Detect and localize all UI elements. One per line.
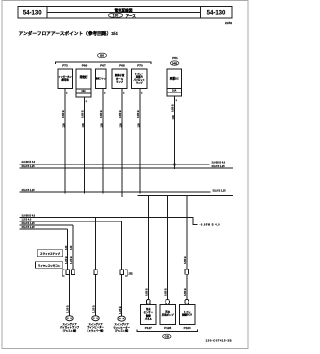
svg-text:P68: P68 xyxy=(119,64,125,68)
svg-text:130: 130 xyxy=(62,123,66,128)
svg-text:3/1.6 B 1.25: 3/1.6 B 1.25 xyxy=(22,165,36,168)
component P129 box xyxy=(179,304,194,324)
wire W6 from P51 xyxy=(174,96,176,169)
svg-text:トイレ・: トイレ・ xyxy=(135,72,144,75)
svg-text:-0.85W B 4.0: -0.85W B 4.0 xyxy=(200,223,221,226)
wire C drop from L2 xyxy=(121,221,123,270)
svg-text:電気配線図: 電気配線図 xyxy=(115,8,133,13)
svg-text:3/1.6 B 1.25: 3/1.6 B 1.25 xyxy=(22,189,36,192)
svg-text:34B: 34B xyxy=(172,61,178,65)
svg-text:1.25 B: 1.25 B xyxy=(66,305,70,313)
svg-text:J/B: J/B xyxy=(128,271,132,275)
svg-text:0.85 B: 0.85 B xyxy=(145,288,149,296)
component P70 トイレパイロットランプ box xyxy=(132,69,148,89)
J/B bracket left xyxy=(62,270,64,276)
svg-text:スライドステップ: スライドステップ xyxy=(40,252,61,256)
svg-text:130: 130 xyxy=(64,245,68,250)
svg-text:(アシスト側): (アシスト側) xyxy=(115,329,129,333)
ground bus 3 xyxy=(20,191,211,193)
ground point B xyxy=(92,316,99,321)
component P68 車椅子室ホールランプ box xyxy=(112,69,127,89)
svg-text:0.85 B: 0.85 B xyxy=(136,110,140,118)
svg-text:1.25 B: 1.25 B xyxy=(118,306,122,314)
branch line L3 xyxy=(20,224,74,226)
svg-text:3/1.6 B 1.25: 3/1.6 B 1.25 xyxy=(22,222,36,225)
branch line L4 xyxy=(20,228,68,230)
component P66 発電灯 box xyxy=(76,69,91,97)
connector oval above P129 xyxy=(185,300,189,305)
svg-text:0.85 B: 0.85 B xyxy=(171,104,175,112)
connector A1 xyxy=(66,270,69,275)
wire W1 from P73 xyxy=(64,89,66,194)
svg-text:発電灯: 発電灯 xyxy=(79,75,88,79)
svg-text:1.25 B: 1.25 B xyxy=(64,256,68,264)
svg-text:54-130: 54-130 xyxy=(207,11,226,17)
wire W4 from P68 xyxy=(121,89,123,198)
svg-text:(アシスト側): (アシスト側) xyxy=(63,328,77,332)
wire W5 from P70 xyxy=(139,89,141,194)
svg-text:3/1.6 B 1.25: 3/1.6 B 1.25 xyxy=(22,226,36,229)
svg-text:ワイヤレスリモコン: ワイヤレスリモコン xyxy=(38,263,61,267)
connector oval GB xyxy=(163,334,171,339)
header circuit number oval 130 xyxy=(108,13,122,18)
svg-text:圧送ポンプ: 圧送ポンプ xyxy=(162,313,174,317)
inline connector P129 xyxy=(185,269,188,274)
connector oval 34B xyxy=(170,61,179,66)
svg-text:3.0-B8 B 4.0: 3.0-B8 B 4.0 xyxy=(22,161,36,164)
wire A2 xyxy=(72,225,74,270)
svg-text:P127: P127 xyxy=(145,326,152,330)
connector A2 xyxy=(71,270,74,275)
svg-text:パネル: パネル xyxy=(145,317,153,321)
header table frame xyxy=(18,7,232,19)
wire to P127 xyxy=(147,196,149,300)
svg-text:130: 130 xyxy=(113,14,119,18)
connector C xyxy=(120,270,123,275)
svg-text:3/1.6 B 1.25: 3/1.6 B 1.25 xyxy=(213,189,227,192)
wire W2 from P66 xyxy=(84,97,86,194)
svg-text:3.0-B8 B 4.0: 3.0-B8 B 4.0 xyxy=(212,161,226,164)
component P51 車載BC box xyxy=(167,69,182,96)
svg-text:P66: P66 xyxy=(82,64,88,68)
ground wire B xyxy=(95,275,97,316)
branch line L1 xyxy=(20,218,198,225)
svg-text:P73: P73 xyxy=(62,64,68,68)
callout box スライドステップ xyxy=(37,250,62,257)
ground point C xyxy=(118,316,125,321)
svg-text:0.85 B: 0.85 B xyxy=(61,110,65,118)
svg-text:54-130: 54-130 xyxy=(23,11,42,17)
svg-text:0.85 B: 0.85 B xyxy=(164,288,168,296)
caption ground C xyxy=(113,322,130,332)
junction W6 bus2 xyxy=(173,163,175,165)
svg-text:制御BOX: 制御BOX xyxy=(182,313,192,317)
branch line L2 xyxy=(20,220,122,222)
svg-text:16A: 16A xyxy=(81,90,86,93)
svg-text:B8: B8 xyxy=(100,54,104,58)
svg-text:0.85 B: 0.85 B xyxy=(99,110,103,118)
svg-text:P67: P67 xyxy=(100,64,106,68)
svg-text:130: 130 xyxy=(69,245,73,250)
svg-text:16A: 16A xyxy=(172,90,177,93)
svg-text:ランプ: ランプ xyxy=(116,80,124,84)
svg-text:アース: アース xyxy=(126,13,137,18)
svg-text:P51: P51 xyxy=(172,56,178,60)
svg-text:P124: P124 xyxy=(184,326,191,330)
ground wire C xyxy=(121,275,123,317)
svg-text:0.85 B: 0.85 B xyxy=(183,288,187,296)
connector B xyxy=(94,270,97,275)
ground point A xyxy=(66,316,73,321)
svg-text:0.85 B: 0.85 B xyxy=(81,110,85,118)
caption ground B xyxy=(87,322,104,332)
wire to P129 lower xyxy=(186,274,188,300)
ground bus 1 xyxy=(20,163,210,165)
wire W3 from P67 xyxy=(102,89,104,194)
svg-text:車載BC: 車載BC xyxy=(170,77,179,81)
component P128 box xyxy=(160,304,175,324)
wire to P128 xyxy=(167,196,169,300)
svg-text:(ドライバー側): (ドライバー側) xyxy=(88,328,104,332)
connector oval above P127 xyxy=(147,300,151,305)
svg-text:21/52: 21/52 xyxy=(225,21,232,25)
component P67 換気ファン box xyxy=(96,69,106,89)
svg-text:0.85 B: 0.85 B xyxy=(118,110,122,118)
wire B drop from L1 xyxy=(95,218,97,270)
svg-text:130: 130 xyxy=(81,123,85,128)
wire A1 xyxy=(67,229,69,270)
svg-text:130: 130 xyxy=(137,123,141,128)
svg-text:アンダーフロアアースポイント（参考回路）3/4: アンダーフロアアースポイント（参考回路）3/4 xyxy=(19,30,119,37)
group bracket over P73..P70 xyxy=(55,62,150,64)
svg-text:130: 130 xyxy=(119,123,123,128)
svg-text:1.25 B: 1.25 B xyxy=(92,305,96,313)
svg-text:P128: P128 xyxy=(164,326,171,330)
svg-text:3.0-B8 B 4.0: 3.0-B8 B 4.0 xyxy=(22,215,36,218)
callout box ワイヤレスリモコン xyxy=(36,262,63,269)
wire to P129 upper xyxy=(186,196,188,270)
svg-text:130: 130 xyxy=(171,115,175,120)
page scan border xyxy=(2,1,248,349)
ground wire A xyxy=(69,275,71,316)
svg-text:1.25 B: 1.25 B xyxy=(69,256,73,264)
connector oval above P128 xyxy=(166,300,170,305)
ground bus 4 xyxy=(138,195,234,197)
component P73 インターホン box xyxy=(58,69,73,89)
connector oval B8 xyxy=(98,53,107,58)
caption ground A xyxy=(60,322,80,332)
svg-text:130: 130 xyxy=(100,123,104,128)
svg-text:130-C07415-3B: 130-C07415-3B xyxy=(206,338,232,342)
svg-text:3/1.6 B 1.25: 3/1.6 B 1.25 xyxy=(212,165,226,168)
J/B bracket right xyxy=(125,270,127,276)
svg-text:0.85 B: 0.85 B xyxy=(183,256,187,264)
component P127 box xyxy=(141,304,156,324)
bottom group bracket xyxy=(137,330,197,332)
ground bus 2 xyxy=(20,167,234,169)
svg-text:1.5 B 4.0: 1.5 B 4.0 xyxy=(22,218,32,221)
svg-text:P70: P70 xyxy=(137,64,143,68)
